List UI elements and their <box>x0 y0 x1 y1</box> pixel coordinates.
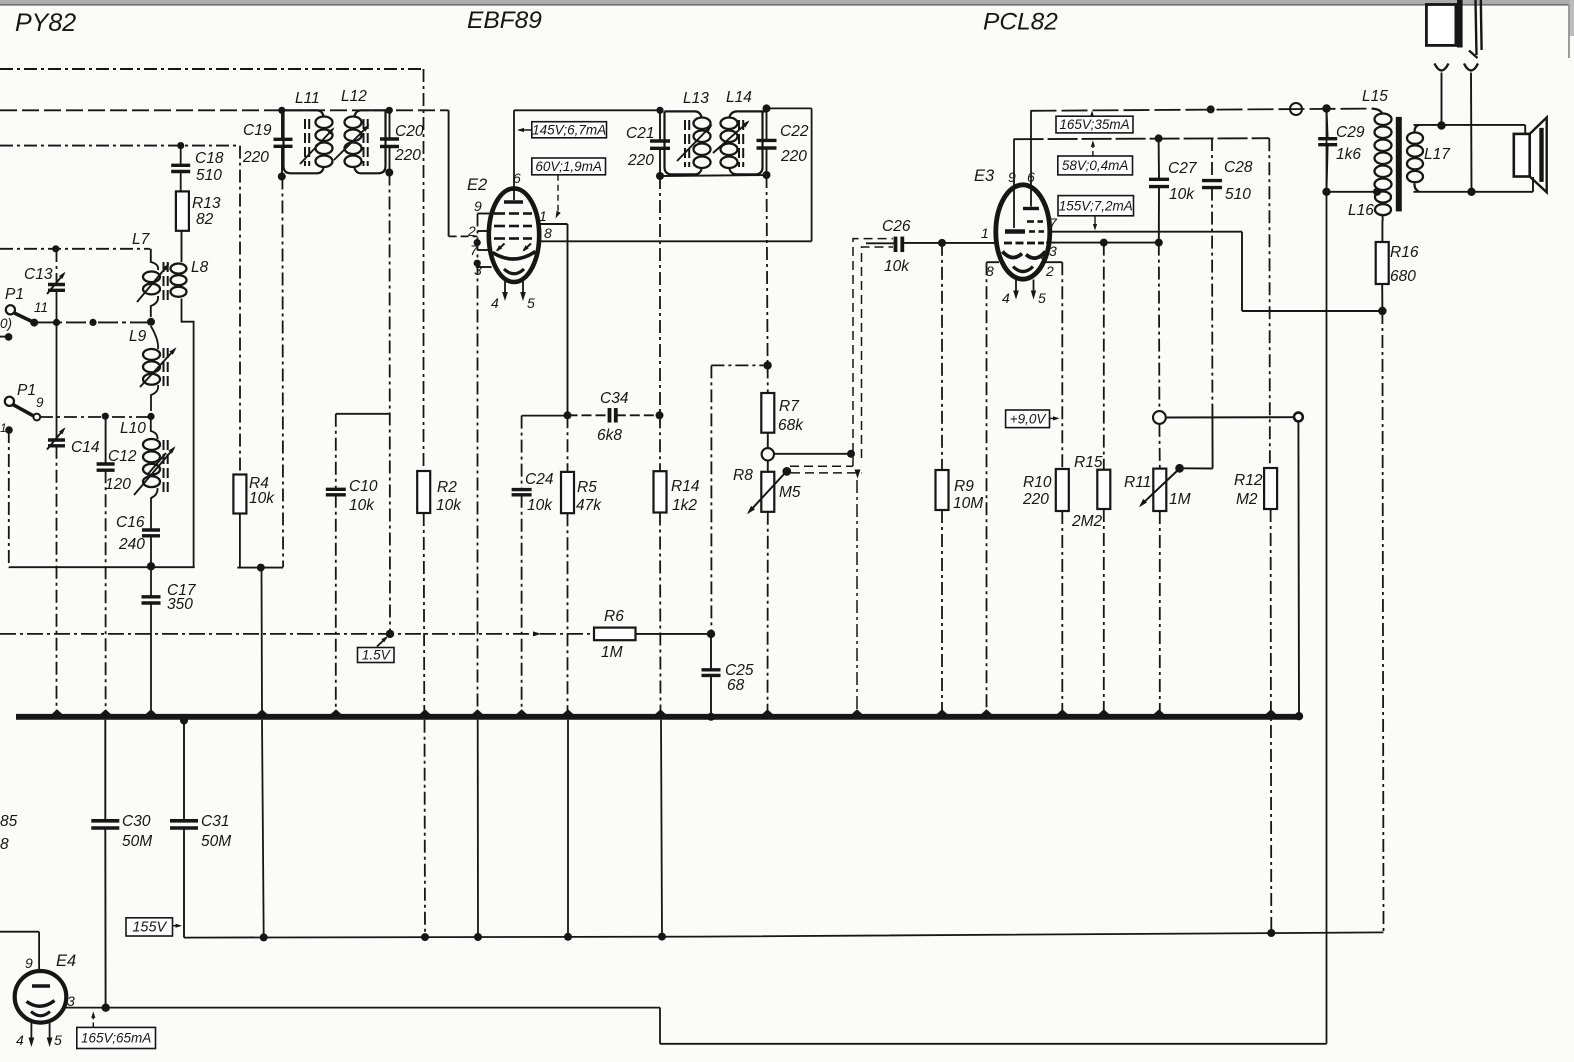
speaker horn <box>1530 117 1547 192</box>
node dot ant right <box>1467 188 1475 196</box>
resistor R5 <box>561 472 574 513</box>
cathode arc E3 left <box>1003 252 1023 258</box>
node dot L15 tap <box>1373 188 1381 196</box>
svg-text:C31: C31 <box>201 813 229 830</box>
trimmer capacitor C13 <box>48 283 65 286</box>
diode arrow E2 right <box>524 244 532 251</box>
capacitor C19 <box>274 138 293 141</box>
svg-text:155V: 155V <box>132 920 167 936</box>
bracket E3 right <box>1041 257 1062 262</box>
wire C34 mid <box>568 414 610 416</box>
grid dashes E2 row3 <box>494 237 505 240</box>
svg-text:6: 6 <box>513 170 521 186</box>
svg-text:85: 85 <box>0 813 18 830</box>
node dot E2 bracket b <box>474 260 481 267</box>
bus junction bump x=1062.3 <box>1057 709 1068 714</box>
node dot C22 bottom <box>763 171 771 179</box>
svg-text:47k: 47k <box>576 497 602 514</box>
wire R15 down <box>1103 509 1105 714</box>
wire C20 to R6 line <box>389 173 392 634</box>
node dot H6 x=151 <box>147 413 154 420</box>
wire R9 down <box>941 510 943 714</box>
tuner box bottom seg2 <box>237 567 283 569</box>
coil L7 <box>151 249 158 270</box>
wire C19 bottom down <box>281 177 284 568</box>
node dot C29 bottom <box>1322 188 1330 196</box>
wire C26 left <box>866 242 896 244</box>
wire grid line right <box>1046 242 1159 244</box>
trimmer capacitor C14 <box>48 438 65 441</box>
bracket E3 left <box>987 261 1000 263</box>
grid dashes E2 row2 <box>494 225 505 228</box>
node dot AVC <box>763 361 771 369</box>
svg-text:2: 2 <box>467 223 476 239</box>
svg-text:C29: C29 <box>1336 124 1365 141</box>
coil loops L12 <box>345 117 362 129</box>
svg-text:3: 3 <box>67 993 75 1009</box>
svg-text:10k: 10k <box>249 490 275 507</box>
capacitor C17 <box>142 595 161 598</box>
coil frame L13 <box>665 111 702 174</box>
svg-text:L17: L17 <box>1424 146 1451 163</box>
wire C24 down <box>521 495 523 714</box>
node dot H6 x=105.6 <box>102 413 109 420</box>
wire C25 node riser <box>710 365 712 634</box>
heater lead E3 4 <box>1015 280 1017 295</box>
wiper dot R8 <box>782 467 791 476</box>
svg-text:9: 9 <box>474 198 482 214</box>
coil L10 <box>143 439 160 450</box>
svg-text:1k2: 1k2 <box>672 497 697 514</box>
resistor R4 <box>233 475 246 514</box>
svg-text:L13: L13 <box>683 90 709 107</box>
core bars L11 <box>304 119 306 129</box>
voltage box 1.5V <box>358 648 395 663</box>
core bars L10 <box>163 440 165 450</box>
cathode arc E3 small <box>1013 267 1033 272</box>
svg-text:C18: C18 <box>195 150 224 167</box>
trimmer arrow L12 <box>334 126 368 160</box>
wire R4 top feed <box>239 146 241 475</box>
wire R7 top <box>767 365 769 393</box>
trimmer arrow L14 <box>713 122 748 153</box>
svg-text:L11: L11 <box>295 90 320 107</box>
wire R15 feed <box>1103 243 1105 470</box>
voltage box 155V72 <box>1058 196 1134 216</box>
wire E2 bracket below bus <box>477 720 479 937</box>
pin 6 lead E2 <box>513 110 515 200</box>
svg-text:5: 5 <box>527 295 535 311</box>
wire pin9 line <box>1014 138 1270 139</box>
svg-text:50M: 50M <box>122 833 152 850</box>
bus junction bump x=151 <box>146 709 157 714</box>
anode bar E3 <box>1023 207 1039 210</box>
coil loops L14 <box>721 118 738 130</box>
155V rail dot x=478 <box>474 933 482 941</box>
voltage box 145V <box>532 122 607 138</box>
connector lines <box>1476 0 1477 55</box>
arrow 1.5V box <box>377 638 387 647</box>
wire H6 y=417 <box>40 416 151 418</box>
trimmer arrow L7/L8 <box>137 265 168 302</box>
svg-text:8: 8 <box>0 836 9 853</box>
resistor R12 <box>1264 468 1277 509</box>
wire R5 leads <box>567 415 569 472</box>
svg-text:50M: 50M <box>201 833 231 850</box>
grid bar E3 <box>1005 229 1025 233</box>
heater lead E4 4 <box>30 1022 32 1041</box>
anode bar E2 <box>504 200 523 204</box>
svg-text:11: 11 <box>34 300 48 315</box>
resistor R8 potentiometer <box>761 472 774 512</box>
pot arrow R11 <box>1141 470 1178 505</box>
svg-text:220: 220 <box>627 152 654 169</box>
svg-text:4: 4 <box>1002 290 1010 306</box>
wire top to corner <box>767 107 812 109</box>
heater lead E2 4 <box>504 281 506 296</box>
cathode arc E4 <box>31 1012 50 1016</box>
wire H2 y=110 <box>0 109 449 111</box>
svg-text:P1: P1 <box>5 286 24 303</box>
svg-text:R14: R14 <box>671 478 700 495</box>
svg-text:C21: C21 <box>626 125 654 142</box>
svg-text:E2: E2 <box>467 176 487 194</box>
node dot top line x=1326 <box>1322 104 1330 112</box>
svg-text:4: 4 <box>16 1032 24 1048</box>
cathode arc E3 right <box>1026 252 1046 259</box>
node dot R4 bottom <box>257 564 265 572</box>
speaker diaphragm <box>1539 128 1543 182</box>
node dot C22 top <box>763 104 771 112</box>
wire C34 left <box>522 415 568 417</box>
node dot C16/C17 <box>147 562 155 570</box>
grid dashes E3 row1 <box>1027 220 1034 223</box>
connector bar <box>1457 0 1463 48</box>
svg-text:PY82: PY82 <box>15 9 76 37</box>
heater lead E4 5 <box>49 1022 51 1041</box>
svg-text:1k6: 1k6 <box>1336 146 1361 163</box>
grid arc E4 <box>27 1001 55 1007</box>
wire H5 y=322.4 <box>34 321 151 323</box>
terminal hook right <box>1464 64 1478 71</box>
wire R10 feed <box>1061 262 1063 469</box>
svg-text:10k: 10k <box>349 497 375 514</box>
svg-text:L8: L8 <box>191 259 209 276</box>
bus junction bump x=857 <box>852 709 863 714</box>
resistor R7 <box>761 393 774 433</box>
svg-text:9: 9 <box>1008 169 1016 185</box>
svg-text:L9: L9 <box>129 328 147 345</box>
node dot C13 top <box>52 245 59 252</box>
node dot 1.5V <box>386 630 394 638</box>
wire H4 dash-dot y=249 <box>0 248 150 250</box>
svg-text:P1: P1 <box>17 382 36 399</box>
edge dot lower <box>5 426 13 434</box>
pot tap circle R11 <box>1153 411 1166 424</box>
tube E3 envelope <box>996 185 1050 279</box>
shield cable inner <box>862 247 894 458</box>
wire R16 bottom <box>1381 284 1383 311</box>
trimmer arrow L10 <box>134 448 174 495</box>
svg-text:165V;35mA: 165V;35mA <box>1059 117 1129 132</box>
svg-text:82: 82 <box>196 211 214 228</box>
node dot R9 top <box>938 239 946 247</box>
bus junction dot x=184 below <box>180 717 188 725</box>
svg-text:6: 6 <box>1027 169 1035 185</box>
resistor R9 <box>936 470 949 510</box>
node dot C19 top <box>278 107 285 114</box>
core bars L7/L8 <box>163 262 165 272</box>
resistor R15 <box>1097 470 1110 509</box>
svg-text:220: 220 <box>780 148 807 165</box>
bus junction bump x=336 <box>331 709 342 714</box>
bus end dot right <box>1295 712 1303 720</box>
lead R13 to L8 <box>181 230 183 232</box>
tuner box bottom <box>9 566 195 568</box>
node dot shield wire <box>847 450 855 458</box>
node dot C34 left <box>564 411 572 419</box>
wire volume line <box>1166 416 1295 418</box>
svg-text:C16: C16 <box>116 514 145 531</box>
capacitor C21 <box>650 139 670 142</box>
wire tap to shield <box>774 453 851 455</box>
wire R8 down <box>767 512 769 714</box>
svg-text:4: 4 <box>491 295 499 311</box>
heater lead E2 5 <box>522 281 524 296</box>
wire C26 right <box>902 242 996 244</box>
capacitor C10 <box>326 488 346 491</box>
svg-text:10k: 10k <box>436 497 462 514</box>
wire pin1 E3 <box>996 242 998 244</box>
capacitor C26 <box>894 237 898 253</box>
wire R14 leads <box>659 415 661 471</box>
right bracket E2 <box>567 224 569 415</box>
wire R2 down <box>423 513 426 714</box>
pin6 lead E3 <box>1030 111 1032 207</box>
svg-text:R5: R5 <box>577 479 597 496</box>
svg-text:2: 2 <box>1045 263 1054 279</box>
svg-text:9: 9 <box>36 395 44 410</box>
155V rail dot x=425 <box>421 933 429 941</box>
left bracket E2 <box>477 214 479 714</box>
svg-text:240: 240 <box>118 536 145 553</box>
connector block <box>1426 5 1456 46</box>
wire R12 down <box>1270 509 1273 933</box>
grid dashes E3 row3 <box>1004 242 1012 245</box>
svg-text:R8: R8 <box>733 467 753 484</box>
wire step down x=660 <box>659 1008 661 1044</box>
capacitor C27 <box>1149 178 1169 181</box>
pin stub E2 2 <box>478 230 490 232</box>
voltage box 58V <box>1058 156 1133 175</box>
bus junction bump x=1271 <box>1266 709 1277 714</box>
node dot top line x=1210 <box>1207 105 1215 113</box>
svg-text:10k: 10k <box>527 497 553 514</box>
svg-text:6k8: 6k8 <box>597 427 622 444</box>
coil L17 <box>1414 125 1419 133</box>
bus junction bump x=1159 <box>1154 709 1165 714</box>
svg-text:R16: R16 <box>1390 244 1419 261</box>
155V rail dot x=1271.3 <box>1267 929 1275 937</box>
svg-text:EBF89: EBF89 <box>467 7 542 34</box>
svg-text:120: 120 <box>105 476 131 493</box>
wire EBF top line <box>514 109 660 111</box>
wire R7 to tap <box>767 433 769 448</box>
resistor R11 potentiometer <box>1153 469 1166 511</box>
transformer core <box>1396 117 1402 211</box>
155V rail line <box>184 932 1384 937</box>
svg-text:155V;7,2mA: 155V;7,2mA <box>1059 198 1133 213</box>
shield dashed pair to wiper <box>790 465 853 467</box>
node dot C20 bottom <box>385 169 393 177</box>
svg-text:+9,0V: +9,0V <box>1010 411 1048 426</box>
capacitor C28 <box>1202 179 1222 182</box>
svg-text:C20: C20 <box>395 123 424 140</box>
svg-text:7: 7 <box>1049 215 1058 231</box>
node dot E2 bracket a <box>474 239 481 246</box>
voltage box 60V <box>532 158 606 175</box>
svg-text:R10: R10 <box>1023 474 1052 491</box>
wire R2 feed corner <box>423 69 425 471</box>
pin stub E2 7 <box>478 249 491 251</box>
arrow +9V <box>1050 417 1058 419</box>
arrow 165V65 <box>92 1014 94 1027</box>
resistor R10 <box>1056 469 1069 511</box>
coil L9 <box>143 349 160 360</box>
bus junction bump x=568 <box>563 709 574 714</box>
wire C29 to coil tap <box>1327 191 1378 193</box>
svg-text:C22: C22 <box>780 123 809 140</box>
tube E4 envelope <box>15 971 67 1023</box>
node dot H5 x=56 <box>53 319 60 326</box>
wire EBF89 grid feed <box>448 110 450 236</box>
wire R4 bottom to rail <box>261 568 264 714</box>
svg-text:C12: C12 <box>108 448 137 465</box>
node dot C20 top <box>386 107 393 114</box>
terminal circle right <box>1294 413 1303 422</box>
dial arrow on R6 line <box>533 631 541 636</box>
node dot grid x=1103 <box>1100 239 1108 247</box>
capacitor C31 <box>170 819 198 823</box>
core bars L12 <box>363 119 365 129</box>
wire C28 corner to wiper <box>1184 467 1213 469</box>
svg-text:8: 8 <box>544 225 552 241</box>
coil loops L13 <box>694 118 711 130</box>
pin stub E2 3 <box>478 266 492 268</box>
svg-text:5: 5 <box>54 1032 62 1048</box>
wire C22 down to AVC node <box>767 175 768 365</box>
bus junction bump x=521.6 <box>516 709 527 714</box>
svg-text:68k: 68k <box>778 417 804 434</box>
svg-text:L14: L14 <box>726 89 752 106</box>
svg-text:510: 510 <box>1225 186 1251 203</box>
svg-text:R9: R9 <box>954 478 974 495</box>
svg-text:0): 0) <box>0 316 12 331</box>
bus junction bump x=425 <box>420 709 431 714</box>
node dot E4 line <box>102 1004 110 1012</box>
bus junction bump x=262 <box>257 709 268 714</box>
node dot C19 bottom <box>278 173 286 181</box>
arrow 165V up <box>1091 113 1093 117</box>
wire pin8 to L14 loop <box>568 240 812 242</box>
svg-text:145V;6,7mA: 145V;6,7mA <box>532 122 606 137</box>
heater lead E3 5 <box>1033 280 1035 295</box>
wire AVC dash-dot <box>711 364 767 366</box>
capacitor C30 <box>91 819 119 823</box>
svg-text:C26: C26 <box>882 218 911 235</box>
svg-text:C24: C24 <box>525 471 554 488</box>
node dot C27 top <box>1155 134 1163 142</box>
pot arrow R8 <box>749 473 785 512</box>
coil L8 <box>181 231 183 262</box>
bus junction bump x=986.5 <box>981 709 992 714</box>
svg-text:58V;0,4mA: 58V;0,4mA <box>1062 158 1129 173</box>
resistor R14 <box>654 471 667 512</box>
wire pickup down <box>1297 421 1300 713</box>
switch P1 upper <box>6 305 15 314</box>
wiper dot R11 <box>1175 464 1184 473</box>
wire C10 feed <box>336 413 390 415</box>
node dot grid x=1158 <box>1155 239 1163 247</box>
node dot ant left <box>1437 121 1445 129</box>
svg-text:1M: 1M <box>1169 491 1191 508</box>
wire speaker top <box>1414 124 1526 126</box>
wire speaker bottom <box>1414 191 1534 193</box>
pin9 lead E3 <box>1013 139 1015 228</box>
svg-text:E4: E4 <box>56 952 76 970</box>
core bars L13 <box>684 120 686 130</box>
svg-text:165V;65mA: 165V;65mA <box>81 1031 151 1046</box>
scan edge right <box>1570 0 1574 36</box>
155V rail dot x=568 <box>564 933 572 941</box>
svg-text:R12: R12 <box>1234 472 1263 489</box>
shield ground arrow <box>855 470 861 479</box>
svg-text:L16: L16 <box>1348 202 1374 219</box>
anode bar E4 <box>32 984 50 987</box>
svg-text:C10: C10 <box>349 478 378 495</box>
155V rail dot x=662 <box>658 933 666 941</box>
svg-text:350: 350 <box>167 596 193 613</box>
wire E3 pin8 down <box>986 262 988 714</box>
voltage box 165V65 <box>77 1027 156 1048</box>
arrow 155V72 down <box>1094 216 1096 227</box>
cathode arc E2 <box>493 252 536 260</box>
wire R11 down <box>1159 511 1161 714</box>
capacitor C20 <box>380 137 399 140</box>
node dot C34 right <box>656 411 664 419</box>
bus junction bump x=105.6 <box>100 709 111 714</box>
coil frame L11 <box>284 110 324 173</box>
svg-text:1: 1 <box>539 208 547 224</box>
capacitor C16 <box>142 528 160 531</box>
coil frame L14 <box>730 111 767 174</box>
wire IF2 bottoms <box>660 175 767 176</box>
arrow 58V up <box>1092 143 1094 157</box>
svg-text:R6: R6 <box>604 608 624 625</box>
svg-text:R15: R15 <box>1074 454 1103 471</box>
svg-text:C13: C13 <box>24 266 53 283</box>
pin stub E2 8 <box>538 240 568 242</box>
pin stub E2 1 <box>538 223 568 225</box>
tuner box left edge <box>8 430 10 567</box>
svg-text:L15: L15 <box>1362 88 1388 105</box>
shield cable outer <box>853 239 893 466</box>
svg-text:1: 1 <box>0 421 7 435</box>
arrow 145V to pin6 <box>519 129 532 131</box>
voltage box 165V35 <box>1056 116 1133 133</box>
core bars L14 <box>738 120 740 130</box>
svg-text:10k: 10k <box>884 258 910 275</box>
